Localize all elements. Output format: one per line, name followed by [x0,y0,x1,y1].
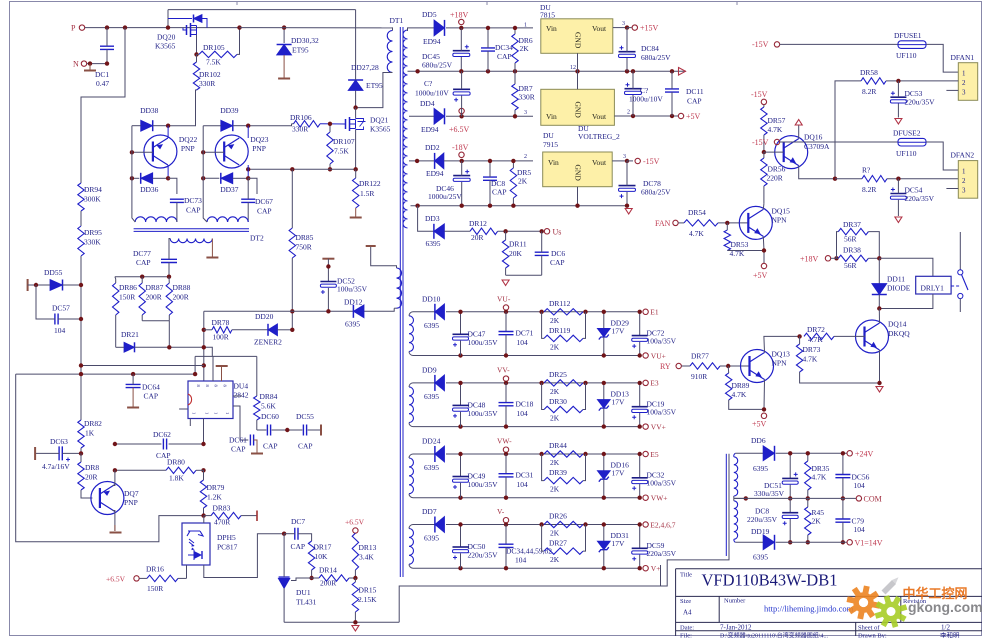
svg-text:DC77: DC77 [133,249,151,258]
svg-text:http://liheming.jimdo.com: http://liheming.jimdo.com [764,604,854,614]
op-amp U1 TL431 [279,534,317,623]
svg-text:330R: 330R [199,79,215,88]
svg-text:DQ13: DQ13 [772,350,791,359]
svg-text:+5V: +5V [686,112,701,121]
svg-text:100u/35V: 100u/35V [468,409,499,418]
svg-text:104: 104 [517,409,529,418]
svg-text:56R: 56R [844,261,857,270]
svg-text:-15V: -15V [752,40,769,49]
svg-text:DFUSE1: DFUSE1 [894,31,922,40]
svg-text:DR17: DR17 [314,543,332,552]
capacitor DC48 [453,381,499,429]
wire DQ13 collector [764,336,800,352]
svg-text:DC71: DC71 [516,328,534,337]
resistor DR105 [197,28,240,67]
svg-text:DQ16: DQ16 [804,133,823,142]
svg-text:+5V: +5V [752,420,767,429]
svg-text:ED94: ED94 [421,125,439,134]
svg-text:VV+: VV+ [651,422,666,431]
svg-text:DC34,44,59,82: DC34,44,59,82 [506,547,552,556]
svg-text:DQ15: DQ15 [772,207,791,216]
svg-text:V1=14V: V1=14V [855,538,883,547]
svg-text:DC1: DC1 [95,70,109,79]
svg-text:DD9: DD9 [422,365,437,374]
svg-text:104: 104 [854,525,866,534]
transformer winding ch3 [409,454,416,498]
svg-text:DQ14: DQ14 [888,320,907,329]
transformer winding ch4 [409,525,416,569]
port E1 [643,308,659,317]
capacitor DC34,44,59,82 [499,525,553,571]
junction [762,150,766,154]
svg-text:A4: A4 [683,609,692,617]
svg-text:3: 3 [962,187,966,195]
zener DD13 [597,381,629,429]
wire COM rail [734,497,856,499]
junction [201,513,205,517]
wire ch2 bottom [416,426,640,428]
resistor DR11 [502,231,526,275]
svg-text:COM: COM [864,495,882,504]
capacitor DC54 [890,179,934,216]
svg-text:680a/25V: 680a/25V [641,53,671,62]
svg-text:DR87: DR87 [146,283,164,292]
capacitor DC59 [632,522,677,570]
port VU- [497,294,511,314]
svg-text:2K: 2K [550,529,560,538]
svg-text:DR53: DR53 [731,240,749,249]
svg-text:100u/35V: 100u/35V [337,285,368,294]
transformer DT2 aux winding [170,239,212,243]
wire row 374 [16,372,198,376]
diode DD27,28 [348,63,383,108]
svg-text:ZENER2: ZENER2 [254,338,282,347]
transformer DT1 aux winding [366,246,402,308]
transformer DT1 secondary top [403,30,408,228]
svg-text:3: 3 [962,89,966,97]
junction [130,176,171,180]
svg-text:1/2: 1/2 [941,624,950,632]
optocoupler DPH5 [182,523,238,565]
svg-text:220u/35V: 220u/35V [747,515,778,524]
resistor DR112 [539,299,587,325]
svg-text:VW-: VW- [497,437,512,446]
svg-text:12: 12 [570,65,576,71]
svg-text:2K: 2K [550,458,560,467]
svg-text:100u/35V: 100u/35V [468,480,499,489]
svg-text:DD2: DD2 [425,143,440,152]
capacitor DC46 [428,161,470,206]
capacitor DC31 [499,454,534,500]
capacitor DC63 [35,437,81,471]
svg-text:7-Jan-2012: 7-Jan-2012 [720,624,752,632]
svg-text:4.7K: 4.7K [808,335,823,344]
svg-text:4.7K: 4.7K [732,390,747,399]
wire fuse2 to fan2 [926,142,958,170]
port VV- [497,365,510,385]
svg-text:PNP: PNP [252,144,266,153]
port +24V [847,449,874,458]
resistor DR122 [353,169,381,208]
capacitor DC51 [754,451,798,501]
wire top bus [168,9,356,11]
svg-text:3: 3 [622,21,625,27]
svg-text:DC7: DC7 [291,517,305,526]
transistor DQ15 [739,206,790,239]
resistor DR38 [831,246,880,271]
svg-text:ED94: ED94 [426,169,444,178]
fuse DFUSE1 [780,31,926,60]
svg-text:DD20: DD20 [255,312,274,321]
port FAN [655,219,678,228]
svg-text:ED94: ED94 [423,37,441,46]
terminal bar DC52 [322,259,334,282]
connector DFAN1 [951,53,978,100]
svg-text:DU: DU [543,131,554,140]
voltage regulator DU VOLTREG_2 [541,89,620,141]
wire P rail [85,27,240,29]
voltage regulator DU 7915 [543,131,613,187]
svg-text:Number: Number [724,598,746,605]
transformer DT3 core [725,454,727,556]
svg-text:VU-: VU- [497,294,511,303]
power ground rail3 [625,209,632,215]
wire ch2 top [416,382,640,384]
capacitor DC55 [285,412,314,451]
diode DD39 [203,106,248,131]
wire gnd rail 1 [408,69,687,73]
wire voltreg gnd [577,71,579,89]
svg-text:DD12: DD12 [344,298,363,307]
relay contact [951,232,968,312]
svg-text:DR77: DR77 [691,352,709,361]
junction [725,221,729,225]
svg-text:Vout: Vout [592,158,607,167]
svg-text:DR89: DR89 [732,381,750,390]
svg-text:DD19: DD19 [751,527,770,536]
svg-text:2K: 2K [550,413,560,422]
svg-text:56R: 56R [844,235,857,244]
transformer winding ch1 [409,312,416,356]
capacitor DC45 [422,28,470,71]
port E3 [643,379,659,388]
svg-text:150R: 150R [147,584,163,593]
resistor DR83 [204,504,257,527]
capacitor DC8x [483,159,507,206]
svg-text:1: 1 [214,412,219,414]
svg-text:200R: 200R [173,293,189,302]
port VW+ [643,494,668,503]
svg-text:4.7K: 4.7K [803,355,818,364]
port +5V [678,112,700,121]
svg-text:1.2K: 1.2K [207,493,222,502]
resistor DR102 [193,54,221,90]
resistor DR39 [542,454,586,494]
svg-text:DC18: DC18 [516,399,534,408]
svg-text:DQ20: DQ20 [157,33,176,42]
transformer DT3 secondary [734,453,763,542]
transistor Q22 [132,126,198,179]
svg-text:DC57: DC57 [52,304,70,313]
wire DQ13 emitter [762,380,766,412]
wire DQ15 collector [762,204,765,210]
resistor DR26 [539,512,587,538]
junction [166,124,170,128]
resistor DR35 [805,451,830,501]
svg-text:FAN: FAN [655,219,671,228]
wire ch4 bottom [416,567,640,569]
wire DR87-DR88 bottoms [142,321,169,348]
svg-text:DC31: DC31 [516,471,534,480]
svg-text:DR11: DR11 [509,240,527,249]
svg-text:E5: E5 [650,450,659,459]
wire tap -18V [409,159,435,163]
svg-text:2: 2 [962,177,966,185]
svg-text:300K: 300K [84,195,101,204]
port VU+ [643,351,666,360]
svg-text:DR78: DR78 [212,318,230,327]
svg-text:DR80: DR80 [167,458,185,467]
wire DQ20 drain [166,10,170,30]
diode DR21 [116,330,213,356]
power ground DC53 [895,119,902,125]
svg-text:DD7: DD7 [422,507,437,516]
svg-text:DR13: DR13 [359,543,377,552]
resistor DR88 [166,277,191,321]
capacitor DC49 [453,452,499,500]
port +6.5V ref [345,518,365,534]
wire DU4 pins bottom [190,419,203,445]
resistor DR17 [308,541,331,578]
wire 7815 out [613,21,632,30]
svg-text:GND: GND [574,32,583,49]
port +5V dq13 [752,413,767,428]
diode DD55 [28,268,84,291]
svg-text:8.2R: 8.2R [862,87,876,96]
svg-text:10K: 10K [315,552,329,561]
resistor R45 [805,498,825,544]
resistor DR7 [512,71,535,118]
svg-text:C3709A: C3709A [804,142,830,151]
port E5 [643,450,659,459]
svg-text:DR15: DR15 [359,586,377,595]
svg-text:7.5K: 7.5K [334,147,349,156]
wire left rail [202,126,204,214]
svg-text:1: 1 [962,168,966,176]
svg-text:UF110: UF110 [896,51,917,60]
svg-text:5.6K: 5.6K [261,402,276,411]
terminal bar caps row [320,425,322,436]
wire N [87,61,110,65]
transformer DT1 label [390,16,404,25]
zener DD31 [597,522,629,570]
capacitor DC73 [170,196,202,219]
capacitor DC61 [229,435,263,454]
wire tap DD3 [418,206,434,232]
terminal bar DR83 [256,511,258,522]
wire ch1 top [416,311,640,313]
svg-text:2K: 2K [520,44,530,53]
url [764,604,854,614]
title block frame [676,569,982,636]
svg-text:DR12: DR12 [469,219,487,228]
svg-text:1000u/10V: 1000u/10V [415,89,449,98]
svg-text:DRLY1: DRLY1 [921,284,945,293]
diode DD12 [344,298,364,329]
junction [353,620,357,624]
power ground [352,626,359,632]
svg-text:DR79: DR79 [207,483,225,492]
resistor DR73 [796,336,879,383]
svg-text:DR57: DR57 [768,116,786,125]
svg-text:+5V: +5V [753,271,768,280]
svg-text:DQ23: DQ23 [250,135,269,144]
svg-text:0.47: 0.47 [96,79,109,88]
svg-text:DR39: DR39 [549,468,567,477]
capacitor C? 1000u/10V [415,71,470,116]
svg-text:DD4: DD4 [420,99,435,108]
diode DD2 [425,143,533,178]
svg-text:CAP: CAP [144,392,159,401]
svg-text:100R: 100R [213,333,229,342]
svg-text:gkong.com: gkong.com [908,599,983,615]
capacitor DC6 [535,231,566,275]
title text [680,571,837,590]
resistor R? [862,166,958,195]
svg-text:+15V: +15V [640,24,659,33]
port COM [856,495,882,504]
resistor DR54 [678,208,748,238]
transformer DT1 primary [356,28,393,108]
capacitor DC67 [241,178,273,222]
wire voltreg out +5V [614,110,678,119]
svg-text:Vin: Vin [546,112,557,121]
svg-text:DR8: DR8 [85,463,99,472]
svg-text:330K: 330K [84,238,101,247]
port V1=14V [847,538,883,547]
svg-text:330R: 330R [519,93,535,102]
capacitor DC71 [499,312,534,358]
zener DD16 [597,452,629,500]
transistor DQ21 [320,108,391,170]
wire to cap [248,178,257,194]
svg-text:DR119: DR119 [549,326,571,335]
svg-text:VV-: VV- [497,365,510,374]
wire fan1 pin3 stub [946,89,958,91]
svg-text:104: 104 [517,338,529,347]
svg-text:DC84: DC84 [641,44,659,53]
svg-text:1000u/25V: 1000u/25V [428,192,462,201]
power arrow DQ16 [795,120,802,126]
svg-text:DC6: DC6 [551,249,565,258]
resistor DR119 [542,312,586,352]
svg-text:DR83: DR83 [213,504,231,513]
svg-text:DR105: DR105 [203,43,225,52]
svg-text:DD39: DD39 [220,106,239,115]
svg-text:PNP: PNP [181,144,195,153]
svg-text:K3565: K3565 [370,125,391,134]
svg-text:7815: 7815 [540,11,555,20]
svg-text:DR122: DR122 [359,179,381,188]
svg-text:330u/35V: 330u/35V [754,489,785,498]
power ground DC54 [895,217,902,223]
svg-text:4.7a/16V: 4.7a/16V [42,462,70,471]
svg-text:CAP: CAP [136,258,151,267]
resistor DR84 [254,392,278,430]
svg-text:DR38: DR38 [843,246,861,255]
svg-text:DQ22: DQ22 [179,135,198,144]
junction [726,364,730,368]
resistor DR72 [797,325,864,344]
svg-text:File:: File: [680,632,692,638]
relay DRLY1 [916,276,951,294]
capacitor DC52 [320,277,367,314]
port +6.5V opto [106,575,139,584]
wire +rail to DD30 [282,25,286,43]
svg-text:20R: 20R [85,473,98,482]
svg-text:3: 3 [623,154,626,160]
svg-text:17V: 17V [612,397,626,406]
svg-text:7.5K: 7.5K [206,58,221,67]
port VV+ [643,422,666,431]
transistor Q23 [203,126,269,179]
diode DD9 [422,365,445,401]
diode DD5 [422,10,533,46]
svg-text:V-: V- [497,507,505,516]
svg-text:Drawn By:: Drawn By: [858,632,887,638]
junction [130,150,134,154]
svg-text:20R: 20R [471,233,484,242]
resistor DR15 [352,578,377,622]
svg-text:104: 104 [515,556,527,565]
svg-text:6395: 6395 [753,464,768,473]
svg-text:2K: 2K [550,342,560,351]
port V+ [643,564,661,573]
svg-text:DR95: DR95 [84,228,102,237]
svg-text:DD6: DD6 [751,436,766,445]
svg-text:-15V: -15V [643,157,660,166]
resistor DR44 [539,441,587,467]
wire us gnd [506,274,542,276]
capacitor DC1 [95,28,114,88]
wire DQ15 emitter [727,236,766,263]
svg-text:DIODE: DIODE [887,284,911,293]
resistor DR94 [78,183,102,211]
svg-text:N: N [73,60,79,69]
svg-text:104: 104 [517,480,529,489]
op-amp U DU4 2842 [188,381,249,419]
svg-text:DC67: DC67 [255,197,273,206]
transformer DT2 winding 2 [203,214,248,222]
wire row 356 [195,356,257,396]
svg-text:CAP: CAP [492,188,507,197]
svg-text:2: 2 [962,79,966,87]
resistor DR79 [200,470,224,515]
size row [680,598,927,617]
resistor DR56 [761,152,786,204]
pin number [524,110,527,116]
transistor DQ20 [155,15,207,55]
junction [105,25,109,29]
svg-text:DR94: DR94 [84,185,102,194]
svg-text:ET95: ET95 [292,46,309,55]
svg-text:200R: 200R [146,293,162,302]
wire DPH5 top pin [203,516,205,523]
svg-text:DC11: DC11 [686,87,704,96]
wire tap +6.5V [409,115,434,117]
pin number [524,154,527,160]
resistor DR16 [139,565,186,594]
